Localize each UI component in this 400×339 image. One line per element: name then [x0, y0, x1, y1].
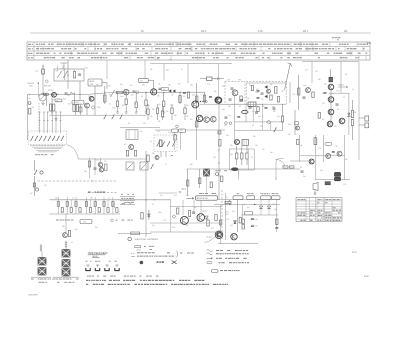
- resistor: [68, 231, 70, 237]
- value labels: [84, 160, 107, 183]
- wire switch feed: [51, 112, 53, 133]
- svg-text:1k2: 1k2: [28, 98, 31, 100]
- resistor: [242, 219, 244, 224]
- svg-text:2.2k: 2.2k: [318, 148, 321, 150]
- label box: [244, 211, 252, 215]
- wire: [344, 135, 346, 180]
- volume label: [88, 192, 105, 193]
- wire: [300, 155, 345, 157]
- svg-text:MW LW: MW LW: [48, 90, 54, 92]
- legend note: [180, 253, 194, 254]
- svg-text:47p: 47p: [168, 132, 171, 134]
- svg-text:8p2: 8p2: [270, 84, 273, 86]
- coil dark: [159, 140, 162, 147]
- capacitor: [225, 117, 228, 118]
- resistor: [219, 220, 221, 225]
- svg-text:3n3: 3n3: [252, 111, 255, 113]
- svg-text:8p2: 8p2: [166, 70, 169, 72]
- capacitor C5: [65, 93, 68, 94]
- transistor T17: [235, 140, 240, 145]
- svg-text:47p: 47p: [214, 91, 217, 93]
- resistor R28: [298, 75, 300, 110]
- diode D1 D2 detector: [169, 89, 176, 92]
- svg-text:39k: 39k: [150, 69, 153, 71]
- svg-text:5p6: 5p6: [222, 109, 225, 111]
- label box pair: [172, 125, 186, 132]
- switch label box: [233, 193, 243, 199]
- transformer TR2: [204, 169, 210, 176]
- wire: [106, 60, 108, 79]
- voltage table right: [296, 198, 342, 222]
- transistor T1b: [85, 103, 90, 115]
- transistor T10: [339, 118, 345, 124]
- resistor: [283, 166, 288, 168]
- wire: [220, 205, 222, 245]
- note line 2: [86, 284, 228, 285]
- capacitor cluster: [183, 92, 190, 98]
- varicap diamond: [267, 120, 271, 124]
- IF can S7: [242, 140, 249, 146]
- switch label box: [261, 193, 271, 199]
- svg-text:68: 68: [124, 144, 126, 146]
- wire loop: [205, 237, 216, 243]
- svg-text:10k: 10k: [160, 195, 163, 197]
- svg-text:3n3: 3n3: [172, 227, 175, 229]
- svg-text:560: 560: [226, 135, 229, 137]
- svg-text:8p2: 8p2: [162, 117, 165, 119]
- resistor: [29, 109, 31, 115]
- trimmer node: [136, 91, 139, 94]
- svg-text:4k7: 4k7: [262, 149, 265, 151]
- resistor: [297, 139, 299, 144]
- svg-text:1k2: 1k2: [200, 117, 203, 119]
- svg-text:8p2: 8p2: [194, 207, 197, 209]
- svg-text:1k2: 1k2: [226, 214, 229, 216]
- legend wire: [118, 232, 152, 235]
- wire stubs box1: [57, 66, 75, 71]
- svg-text:5p6: 5p6: [190, 85, 193, 87]
- svg-text:3n3: 3n3: [230, 225, 233, 227]
- resistor: [126, 151, 128, 157]
- svg-text:39k: 39k: [300, 145, 303, 147]
- wire: [196, 104, 198, 160]
- variable capacitor CV1: [39, 93, 46, 101]
- svg-text:560: 560: [98, 212, 101, 214]
- svg-text:47p: 47p: [186, 225, 189, 227]
- svg-text:5p6: 5p6: [270, 152, 273, 154]
- svg-text:4k7: 4k7: [183, 96, 186, 98]
- wire: [159, 192, 178, 194]
- net arrows: [120, 194, 135, 205]
- svg-text:560: 560: [255, 145, 258, 147]
- wire AM bus: [27, 92, 205, 94]
- wire: [218, 105, 220, 200]
- ground mark: [314, 190, 317, 195]
- wire upper rail: [150, 63, 232, 65]
- wire: [298, 135, 300, 162]
- wire: [120, 127, 160, 129]
- wire drop 341: [340, 62, 342, 94]
- wire: [179, 132, 181, 150]
- transistor T11: [309, 159, 314, 164]
- svg-text:0.1: 0.1: [71, 242, 73, 244]
- driver label box: [196, 193, 218, 200]
- svg-text:47p: 47p: [170, 105, 173, 107]
- svg-text:10k: 10k: [120, 84, 123, 86]
- resistor: [281, 104, 283, 130]
- left node texts: [28, 94, 34, 109]
- svg-text:0.5W: 0.5W: [353, 112, 357, 114]
- svg-text:39k: 39k: [134, 104, 137, 106]
- wire: [329, 92, 350, 94]
- coil: [314, 138, 317, 145]
- resistor: [199, 169, 201, 188]
- capacitor: [324, 93, 327, 94]
- svg-text:S4: S4: [163, 89, 165, 91]
- svg-text:39k: 39k: [152, 153, 155, 155]
- resistor R2 pair: [73, 104, 78, 115]
- terminal blocks: [359, 116, 369, 128]
- switch block: [126, 162, 154, 170]
- svg-text:12k: 12k: [186, 116, 189, 118]
- legend bracket: [176, 251, 179, 257]
- resistor R5: [104, 86, 106, 104]
- svg-text:220: 220: [157, 96, 160, 98]
- wire top rail: [30, 32, 371, 34]
- node label: [201, 30, 206, 33]
- legend row2: [131, 252, 170, 253]
- wire: [262, 104, 264, 130]
- dot: [246, 104, 247, 105]
- audio bracket: [111, 203, 133, 222]
- capacitor: [240, 100, 243, 101]
- label rows: [179, 189, 186, 193]
- FM antenna: [285, 63, 293, 103]
- svg-text:47p: 47p: [152, 225, 155, 227]
- svg-text:100n: 100n: [255, 92, 259, 94]
- svg-text:100n: 100n: [288, 124, 292, 126]
- oscillator label S2: [55, 99, 62, 102]
- wire curve: [275, 159, 285, 166]
- svg-text:FERRITE: FERRITE: [28, 83, 35, 85]
- resistor: [188, 211, 190, 217]
- capacitor C1 12p: [36, 65, 45, 95]
- svg-text:4k7: 4k7: [256, 89, 259, 91]
- svg-text:kHz: kHz: [169, 60, 172, 62]
- transistor T12: [326, 154, 331, 159]
- wire switch feed: [43, 112, 45, 133]
- resistor R50: [225, 201, 231, 205]
- resistor: [184, 104, 186, 120]
- svg-text:2.2k: 2.2k: [163, 220, 166, 222]
- wire switch feed: [55, 112, 57, 133]
- svg-text:68: 68: [141, 96, 143, 98]
- resistor: [239, 217, 241, 223]
- capacitor: [336, 104, 339, 105]
- wire: [65, 214, 67, 233]
- svg-text:S2: S2: [56, 100, 58, 102]
- svg-text:100n: 100n: [120, 96, 124, 98]
- wire: [252, 104, 254, 122]
- capacitor: [249, 107, 252, 108]
- transistor T16: [215, 97, 221, 103]
- capacitor: [192, 212, 195, 213]
- resistor: [251, 86, 253, 91]
- node label 455: [157, 59, 172, 62]
- wire drop 312: [311, 62, 313, 84]
- node label reel: [44, 84, 54, 92]
- transistor T15c: [211, 116, 217, 122]
- wire harness: [30, 146, 65, 152]
- svg-text:2.2k: 2.2k: [343, 184, 346, 186]
- svg-text:47p: 47p: [247, 98, 250, 100]
- terminal: [35, 188, 38, 191]
- resistor R1 pair: [49, 98, 55, 116]
- node label: [344, 30, 347, 33]
- svg-text:CE/67/EN: CE/67/EN: [28, 294, 38, 296]
- transistor T13: [337, 151, 342, 156]
- transistor T15a: [196, 115, 202, 121]
- resistor: [187, 169, 189, 196]
- switch arrow: [274, 127, 277, 131]
- wire: [46, 96, 48, 107]
- wire: [155, 129, 172, 131]
- svg-text:560: 560: [96, 85, 99, 87]
- coil L10: [329, 69, 333, 82]
- switch S11: [154, 135, 177, 152]
- terminal: [229, 122, 232, 125]
- svg-text:220: 220: [213, 157, 216, 159]
- terminal: [225, 122, 228, 125]
- svg-text:0.1: 0.1: [251, 157, 253, 159]
- wire: [218, 64, 220, 98]
- svg-text:560: 560: [318, 79, 321, 81]
- wire: [150, 222, 222, 224]
- wire audio feed: [187, 168, 300, 170]
- resistor: [236, 146, 238, 165]
- IF can S5: [126, 130, 138, 140]
- node label: [258, 30, 263, 33]
- wire: [276, 200, 278, 233]
- transistor T22: [215, 231, 223, 239]
- svg-text:2.2k: 2.2k: [250, 107, 253, 109]
- label: [215, 170, 227, 171]
- svg-text:100n: 100n: [336, 91, 340, 93]
- terminal: [216, 173, 219, 176]
- svg-text:8p2: 8p2: [63, 99, 66, 101]
- connector J1: [31, 244, 51, 282]
- resistor: [257, 107, 259, 112]
- bus dots: [42, 92, 180, 95]
- wire curve right: [275, 159, 283, 180]
- svg-text:100: 100: [226, 212, 229, 214]
- band switch S10: [28, 131, 66, 145]
- svg-text:2.2k: 2.2k: [31, 107, 34, 109]
- wire switch feed: [59, 112, 61, 133]
- resistor: [219, 140, 221, 147]
- transistor T23: [231, 200, 238, 240]
- svg-text:100n: 100n: [112, 108, 116, 110]
- value labels tone: [61, 212, 101, 214]
- tuning shaft: [38, 103, 40, 131]
- capacitor: [231, 88, 234, 89]
- svg-text:0.1: 0.1: [181, 69, 183, 71]
- svg-text:100n: 100n: [158, 212, 162, 214]
- resistor: [246, 146, 248, 165]
- value labels tone2: [55, 197, 110, 199]
- IF transformer S2b: [72, 101, 84, 105]
- wire arc: [67, 145, 79, 159]
- svg-text:8p2: 8p2: [122, 105, 125, 107]
- svg-text:4k7: 4k7: [180, 130, 183, 132]
- diode D11: [267, 200, 271, 216]
- symbols right: [140, 261, 177, 265]
- svg-text:47p: 47p: [95, 227, 98, 229]
- FM dashed box: [225, 79, 245, 105]
- transistor T15b: [204, 117, 210, 123]
- capacitor: [255, 112, 258, 113]
- resistor: [134, 151, 136, 157]
- wire tone bus top: [50, 199, 171, 201]
- switch label: [35, 154, 57, 155]
- capacitor C12: [159, 88, 162, 89]
- transistor T4 IF amp: [151, 89, 157, 95]
- resistor: [174, 135, 176, 141]
- transistor T24: [217, 232, 222, 237]
- label box: [325, 142, 331, 145]
- svg-text:0.1: 0.1: [152, 204, 154, 206]
- wire left drop: [27, 95, 29, 141]
- wire: [193, 200, 195, 214]
- transistor T8: [328, 109, 334, 115]
- transistor T2b osc: [89, 96, 94, 101]
- label: [0, 0, 1, 1]
- svg-text:S3: S3: [140, 81, 142, 83]
- transistor T19: [63, 233, 68, 238]
- svg-text:560: 560: [228, 106, 231, 108]
- svg-text:5p6: 5p6: [28, 94, 31, 96]
- bus dot: [72, 93, 73, 94]
- tone ladder: [57, 197, 118, 214]
- wire supply rail 2: [214, 204, 280, 206]
- svg-text:220: 220: [211, 228, 214, 230]
- capacitor: [237, 117, 240, 118]
- pot label box: [80, 220, 92, 224]
- svg-text:220: 220: [337, 109, 340, 111]
- ferrite rod antenna: [28, 82, 40, 97]
- svg-text:100n: 100n: [79, 212, 83, 214]
- wire: [200, 200, 202, 214]
- svg-text:12k: 12k: [171, 95, 174, 97]
- resistor: [147, 104, 149, 120]
- resistor: [215, 215, 217, 221]
- resistor: [276, 219, 278, 225]
- S11 tail parts: [147, 152, 173, 162]
- left bits: [295, 110, 300, 135]
- svg-text:0.1: 0.1: [72, 197, 74, 199]
- svg-text:100: 100: [255, 226, 258, 228]
- tuning gang box: [54, 69, 84, 81]
- svg-text:220: 220: [90, 197, 93, 199]
- svg-text:VOL: VOL: [83, 222, 86, 224]
- transistor T6: [328, 84, 348, 90]
- wire: [144, 60, 146, 78]
- wire right rail: [358, 62, 360, 161]
- transistor T9: [327, 121, 333, 127]
- note line 1: [86, 280, 205, 281]
- svg-text:220: 220: [322, 93, 325, 95]
- svg-text:0.1: 0.1: [352, 89, 354, 91]
- resistor: [125, 92, 128, 113]
- legend row3: [131, 256, 174, 257]
- wire antenna drop: [61, 60, 69, 89]
- resistor: [162, 92, 165, 113]
- wire: [74, 92, 76, 105]
- svg-text:68: 68: [345, 74, 347, 76]
- title tape head: [88, 252, 108, 258]
- legend symbols: [207, 250, 250, 264]
- svg-text:0.1: 0.1: [108, 197, 110, 199]
- wire: [79, 86, 95, 115]
- svg-text:100: 100: [255, 219, 258, 221]
- svg-text:2.2k: 2.2k: [232, 211, 235, 213]
- resistor: [207, 220, 209, 226]
- svg-text:4k7: 4k7: [228, 115, 231, 117]
- resistor: [171, 104, 173, 120]
- svg-text:3n3: 3n3: [303, 176, 306, 178]
- resistor: [221, 176, 223, 182]
- svg-text:12k: 12k: [158, 84, 161, 86]
- connector J2: [53, 241, 80, 283]
- node label: [303, 30, 308, 33]
- capacitor C50: [251, 218, 258, 221]
- dot: [262, 104, 263, 105]
- trimmer arrow: [111, 90, 115, 97]
- oscillator label box: [88, 79, 107, 89]
- svg-text:4k7: 4k7: [322, 119, 325, 121]
- transistor T21: [197, 214, 205, 222]
- note above table: [332, 37, 371, 43]
- label: [56, 220, 73, 221]
- capacitor C51: [251, 225, 258, 228]
- wire: [348, 93, 350, 135]
- svg-text:3n3: 3n3: [305, 70, 308, 72]
- IF transformer S4 label: [161, 87, 169, 91]
- wire: [206, 176, 208, 193]
- transistor T3: [123, 89, 129, 95]
- svg-text:0.1: 0.1: [150, 141, 152, 143]
- wire: [186, 129, 225, 131]
- wire: [242, 205, 244, 220]
- diode D8: [148, 210, 151, 220]
- svg-text:1k2: 1k2: [281, 91, 284, 93]
- svg-text:1k2: 1k2: [30, 193, 33, 195]
- svg-text:4k7: 4k7: [130, 85, 133, 87]
- coil oval: [242, 110, 248, 113]
- driver arrow: [187, 197, 195, 199]
- wire: [290, 160, 309, 162]
- value cluster: [226, 212, 229, 216]
- wire: [218, 243, 258, 245]
- svg-text:68: 68: [252, 125, 254, 127]
- svg-text:5p6: 5p6: [305, 91, 308, 93]
- svg-text:12k: 12k: [44, 185, 47, 187]
- svg-text:68: 68: [239, 106, 241, 108]
- transistor T2 mixer: [52, 92, 57, 97]
- svg-text:3n3: 3n3: [277, 116, 280, 118]
- svg-text:220: 220: [260, 126, 263, 128]
- resistor R6: [116, 91, 122, 93]
